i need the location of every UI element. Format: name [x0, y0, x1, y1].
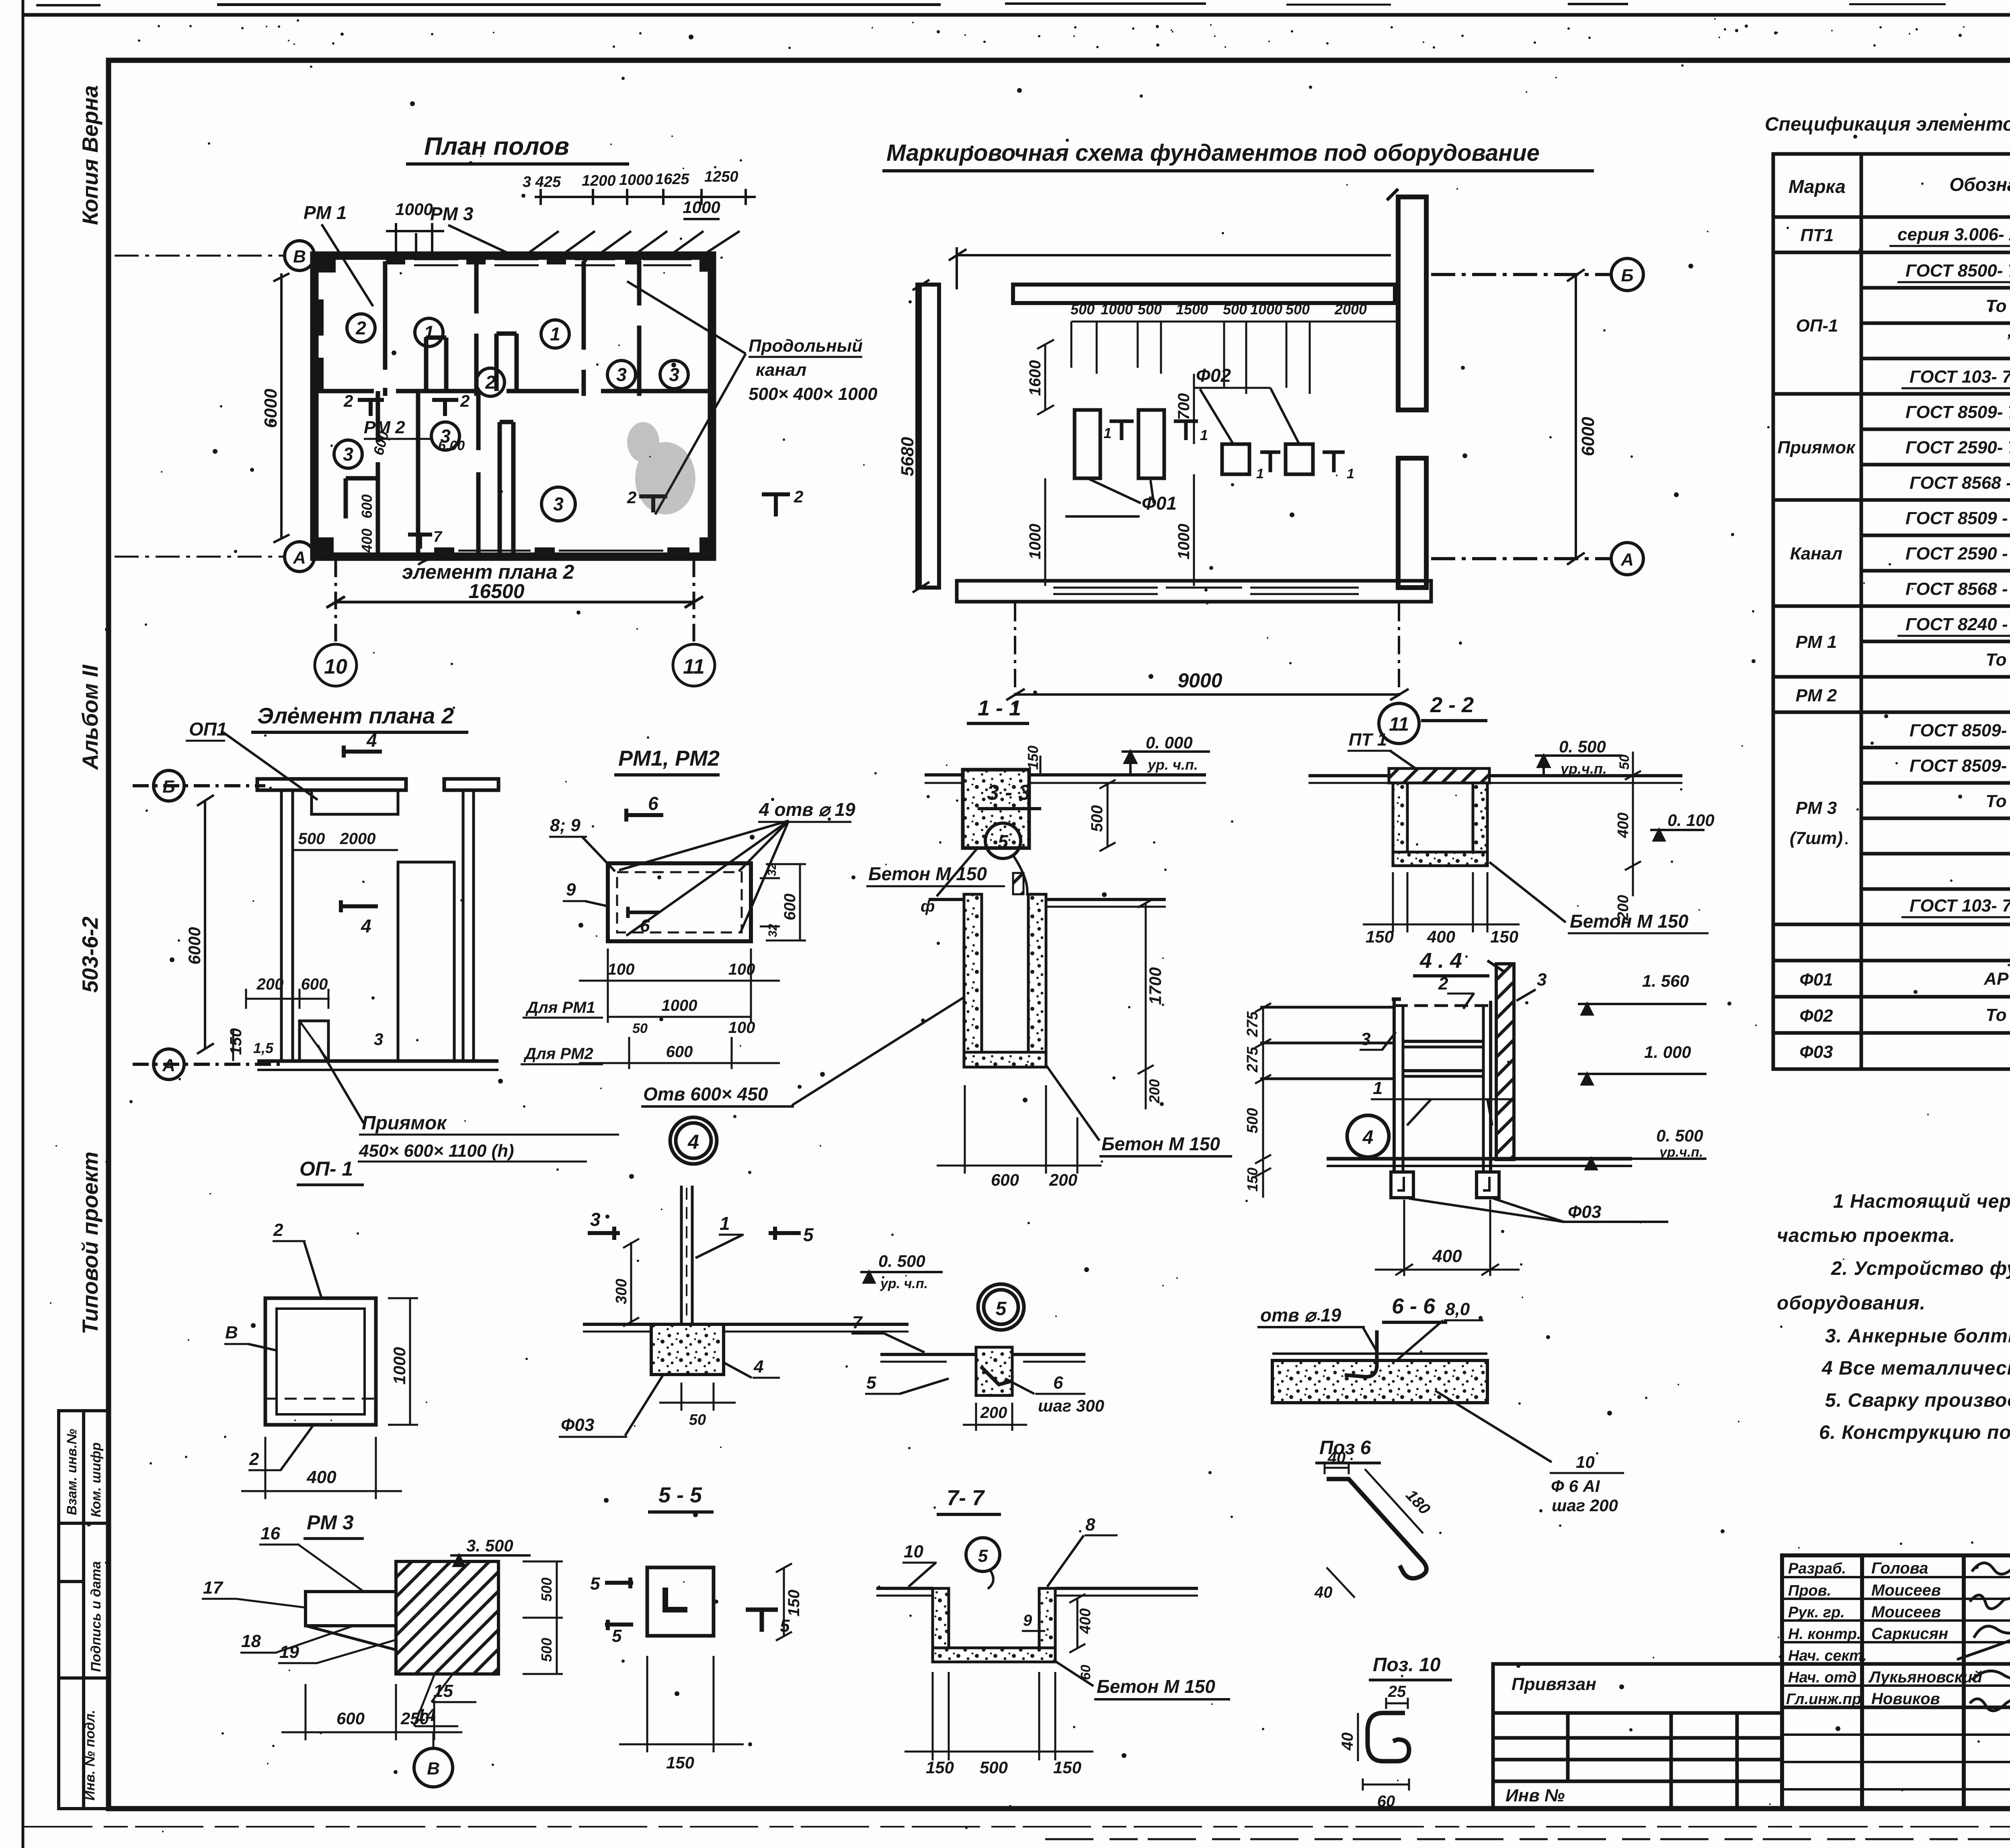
- svg-text:4: 4: [366, 730, 377, 751]
- svg-text:Бетон М 150: Бетон М 150: [1097, 1676, 1215, 1697]
- svg-text:6: 6: [640, 916, 650, 936]
- svg-text:Ф01: Ф01: [1799, 970, 1833, 990]
- dims of 3-3: [937, 899, 1154, 1174]
- svg-text:отв ⌀ 19: отв ⌀ 19: [1260, 1305, 1341, 1326]
- svg-text:1200: 1200: [582, 172, 616, 189]
- outer walls of floor plan: [314, 256, 712, 557]
- dims RM3: [281, 1561, 563, 1740]
- pit (priyamok): [299, 1021, 328, 1061]
- svg-text:60: 60: [1377, 1793, 1395, 1810]
- svg-text:4: 4: [687, 1131, 699, 1153]
- svg-text:500: 500: [1286, 301, 1310, 318]
- svg-text:Ф01: Ф01: [1142, 493, 1177, 514]
- label: longitudinal channel: [749, 336, 878, 404]
- foundation F01 rectangles: [1075, 410, 1313, 478]
- left dim chain of 4-4: [1255, 1003, 1271, 1198]
- svg-text:Бетон М 150: Бетон М 150: [868, 863, 987, 884]
- svg-text:1000: 1000: [1175, 524, 1193, 559]
- svg-text:9: 9: [566, 880, 576, 899]
- signature squiggles: [1957, 1560, 2010, 1716]
- left wall block: [917, 285, 939, 588]
- interior vertical dims: [1037, 340, 1194, 586]
- svg-text:600: 600: [666, 1043, 693, 1061]
- svg-text:150: 150: [1244, 1168, 1261, 1192]
- svg-text:500× 400× 1000: 500× 400× 1000: [749, 384, 878, 404]
- vertical pit walls: [964, 894, 982, 1067]
- svg-text:ОП1: ОП1: [189, 719, 227, 740]
- svg-text:2: 2: [485, 372, 496, 393]
- svg-text:4: 4: [361, 916, 371, 936]
- axis circle B below RM3: [414, 1748, 453, 1787]
- svg-text:1625: 1625: [655, 171, 689, 188]
- svg-text:шаг 300: шаг 300: [1038, 1396, 1104, 1415]
- svg-text:10: 10: [904, 1542, 923, 1561]
- svg-text:Б: Б: [1621, 266, 1633, 285]
- bottom-left margin mini table: [59, 1411, 109, 1809]
- svg-text:2: 2: [343, 391, 353, 410]
- svg-text:оборудования.: оборудования.: [1777, 1293, 1926, 1314]
- svg-text:ур. ч.п.: ур. ч.п.: [880, 1276, 928, 1291]
- svg-text:Бетон М 150: Бетон М 150: [1101, 1133, 1220, 1154]
- svg-text:2: 2: [355, 318, 366, 338]
- bottom dim 400 of 4-4: [1375, 1200, 1520, 1276]
- section mark 6 top: [626, 809, 663, 822]
- vertical dim 6000 left of plan: [273, 273, 289, 543]
- svg-text:6.00: 6.00: [438, 438, 465, 453]
- svg-text:1600: 1600: [1026, 360, 1044, 396]
- svg-text:Приямок: Приямок: [1777, 438, 1856, 457]
- svg-text:РМ 1: РМ 1: [1796, 632, 1837, 652]
- left column labels: [1786, 1560, 1867, 1708]
- svg-text:ГОСТ 103- 76: ГОСТ 103- 76: [1910, 896, 2010, 916]
- svg-text:1. 000: 1. 000: [1644, 1043, 1691, 1061]
- names: [1868, 1559, 2010, 1708]
- svg-text:1700: 1700: [1146, 967, 1165, 1005]
- svg-text:50: 50: [632, 1021, 648, 1036]
- level flag 0.000: [1122, 752, 1210, 775]
- svg-text:1: 1: [1200, 427, 1208, 443]
- hatched brick wall: [1487, 961, 1514, 1160]
- svg-text:Лукьяновский: Лукьяновский: [1868, 1668, 1982, 1686]
- table outer box: [1773, 154, 2010, 1069]
- svg-text:275: 275: [1244, 1047, 1261, 1073]
- svg-text:9: 9: [1023, 1612, 1032, 1629]
- svg-text:5680: 5680: [898, 437, 917, 476]
- svg-text:1000: 1000: [1101, 301, 1133, 318]
- svg-text:3: 3: [616, 364, 627, 385]
- leaders to bolt holes label: [619, 821, 789, 936]
- svg-text:3. Анкерные болты устано: 3. Анкерные болты установить согласно СН…: [1825, 1326, 2010, 1347]
- bottom wall with window lines: [957, 581, 1431, 602]
- svg-text:Подпись и дата: Подпись и дата: [88, 1561, 104, 1672]
- foundation F02 rectangles: [1222, 444, 1249, 474]
- left margin rotated annotations: [78, 85, 103, 1334]
- svg-text:(7шт): (7шт): [1790, 828, 1843, 848]
- svg-text:1000: 1000: [619, 172, 653, 188]
- svg-text:Ф 6 АI: Ф 6 АI: [1551, 1477, 1600, 1496]
- svg-text:400: 400: [1077, 1608, 1094, 1634]
- svg-text:ур. ч.п.: ур. ч.п.: [1147, 756, 1198, 773]
- svg-text:3: 3: [1537, 970, 1546, 990]
- svg-text:Моисеев: Моисеев: [1871, 1582, 1941, 1599]
- svg-text:3: 3: [553, 494, 564, 514]
- svg-text:9000: 9000: [1177, 669, 1222, 692]
- svg-text:400: 400: [1427, 927, 1455, 946]
- svg-text:1,5: 1,5: [253, 1040, 274, 1056]
- svg-text:1000: 1000: [662, 997, 697, 1014]
- svg-text:400: 400: [1615, 813, 1632, 838]
- svg-text:5 - 5: 5 - 5: [658, 1483, 702, 1507]
- tee marks near foundations: [1110, 421, 1345, 472]
- svg-text:32: 32: [765, 863, 779, 876]
- body row lines (cols 2-5): [1861, 251, 2010, 254]
- svg-text:2 - 2: 2 - 2: [1430, 693, 1474, 717]
- leader labels RM3: [203, 1524, 453, 1725]
- svg-text:То же: То же: [1985, 791, 2010, 811]
- svg-text:600: 600: [359, 494, 375, 518]
- svg-text:1000: 1000: [683, 198, 720, 217]
- svg-text:150: 150: [1025, 746, 1041, 770]
- svg-text:канал: канал: [756, 360, 806, 380]
- svg-text:Альбом II: Альбом II: [78, 664, 103, 770]
- svg-text:1250: 1250: [704, 168, 738, 185]
- svg-text:200: 200: [1049, 1170, 1077, 1189]
- svg-text:ГОСТ 8568 - 57: ГОСТ 8568 - 57: [1905, 579, 2010, 599]
- svg-text:500: 500: [538, 1578, 555, 1602]
- dim 200 under weld detail: [963, 1403, 1027, 1431]
- svg-text:РМ1, РМ2: РМ1, РМ2: [618, 746, 720, 770]
- svg-text:1: 1: [1256, 466, 1264, 481]
- svg-text:Привязан: Привязан: [1512, 1674, 1596, 1694]
- svg-text:150: 150: [666, 1753, 694, 1772]
- svg-text:3 - 3: 3 - 3: [987, 781, 1030, 805]
- top slab with channel OP1: [257, 779, 406, 790]
- mark column entries: [1777, 225, 1856, 1062]
- svg-text:ГОСТ 8568 - 57: ГОСТ 8568 - 57: [1910, 473, 2010, 493]
- svg-text:6000: 6000: [261, 389, 281, 428]
- svg-text:500: 500: [980, 1758, 1008, 1777]
- left dim 5680: [913, 280, 929, 592]
- svg-text:РМ 3: РМ 3: [307, 1511, 354, 1534]
- svg-text:частью проекта.: частью проекта.: [1777, 1225, 1955, 1246]
- bottom dimension 16500 with grid circles 10 and 11: [315, 559, 715, 686]
- svg-text:5: 5: [998, 831, 1009, 852]
- interior walls lower half: [376, 391, 380, 442]
- svg-text:1: 1: [1373, 1078, 1382, 1098]
- svg-text:18: 18: [241, 1631, 261, 1651]
- svg-text:500: 500: [1071, 301, 1095, 318]
- svg-text:8: 8: [1085, 1515, 1095, 1535]
- svg-text:То же: То же: [1985, 650, 2010, 670]
- svg-text:7: 7: [433, 529, 443, 545]
- svg-text:6. Конструкцию пола смотри: 6. Конструкцию пола смотри на чертеже АР…: [1819, 1422, 2010, 1443]
- level flag 3.500: [450, 1555, 531, 1566]
- svg-text:”: ”: [2006, 331, 2010, 350]
- room number circles: [334, 314, 688, 521]
- svg-text:8,0: 8,0: [1445, 1299, 1470, 1319]
- svg-text:Голова: Голова: [1871, 1559, 1928, 1577]
- svg-text:400: 400: [306, 1467, 336, 1487]
- svg-text:3 425: 3 425: [523, 174, 561, 191]
- svg-text:8; 9: 8; 9: [550, 815, 580, 835]
- svg-text:50: 50: [689, 1412, 706, 1428]
- grid circle 4 in section: [1347, 1115, 1389, 1157]
- svg-text:0. 500: 0. 500: [1656, 1126, 1703, 1145]
- svg-text:ПТ 1: ПТ 1: [1349, 730, 1387, 750]
- svg-text:ГОСТ 8500- 72: ГОСТ 8500- 72: [1905, 261, 2010, 281]
- svg-text:150: 150: [227, 1028, 245, 1055]
- svg-text:100: 100: [728, 961, 755, 978]
- svg-text:Ком. шифр: Ком. шифр: [88, 1442, 104, 1517]
- level flag 0.500 node: [860, 1272, 943, 1283]
- bottom dims of 2-2: [1363, 872, 1520, 932]
- svg-text:4 отв ⌀ 19: 4 отв ⌀ 19: [759, 799, 855, 820]
- wc partitions upper middle: [494, 334, 499, 391]
- svg-text:ГОСТ 2590- 71: ГОСТ 2590- 71: [1905, 438, 2010, 457]
- top long dimension line: [949, 247, 1391, 289]
- svg-text:100: 100: [728, 1019, 755, 1037]
- svg-text:То же: То же: [1985, 296, 2010, 316]
- svg-text:Ф02: Ф02: [1799, 1006, 1833, 1026]
- svg-text:РМ 3: РМ 3: [1796, 798, 1837, 818]
- svg-text:40: 40: [1314, 1584, 1333, 1601]
- post frame of 4-4: [1392, 999, 1491, 1172]
- svg-text:1000: 1000: [1026, 524, 1044, 559]
- svg-text:А: А: [1620, 550, 1634, 570]
- axis circles B/A for element: [133, 770, 281, 1080]
- svg-text:5. Сварку производить эл: 5. Сварку производить электродами типа Э…: [1825, 1390, 2010, 1411]
- small closet lower-left: [346, 476, 378, 481]
- svg-text:Пров.: Пров.: [1788, 1582, 1831, 1599]
- svg-text:450× 600× 1100 (h): 450× 600× 1100 (h): [359, 1141, 514, 1161]
- top dimension chains: [386, 189, 756, 257]
- svg-text:В: В: [225, 1323, 238, 1342]
- svg-text:3. 500: 3. 500: [466, 1536, 513, 1555]
- svg-text:шаг 200: шаг 200: [1552, 1496, 1618, 1515]
- svg-text:2000: 2000: [340, 830, 376, 848]
- svg-text:500: 500: [1244, 1108, 1261, 1133]
- svg-text:Канал: Канал: [1790, 544, 1842, 563]
- svg-text:400: 400: [359, 529, 375, 553]
- section marks 4: [341, 746, 382, 912]
- small interior dims lower-left: [359, 429, 465, 553]
- svg-text:РМ 1: РМ 1: [304, 202, 347, 223]
- svg-text:Маркировочная схема фу: Маркировочная схема фундаментов под обор…: [886, 140, 1540, 166]
- dims 7-7: [904, 1594, 1093, 1760]
- svg-text:ГОСТ 103- 76: ГОСТ 103- 76: [1910, 367, 2010, 387]
- svg-text:400: 400: [1432, 1246, 1462, 1266]
- svg-text:4 . 4: 4 . 4: [1419, 949, 1462, 973]
- svg-text:ГОСТ 8509 - 72: ГОСТ 8509 - 72: [1905, 508, 2010, 528]
- svg-text:Инв №: Инв №: [1505, 1786, 1565, 1805]
- svg-text:1: 1: [550, 324, 560, 344]
- mid horizontal corridor wall: [314, 389, 374, 393]
- svg-text:0. 100: 0. 100: [1667, 811, 1715, 830]
- dims 5-5: [619, 1563, 792, 1752]
- svg-text:3: 3: [343, 444, 353, 465]
- right dims of RM1/RM2: [760, 864, 806, 940]
- svg-text:50: 50: [1617, 754, 1632, 770]
- svg-text:500: 500: [1223, 301, 1247, 318]
- mark column group separators: [1773, 251, 1861, 254]
- svg-text:Б: Б: [162, 777, 175, 797]
- svg-text:ГОСТ 8509- 72: ГОСТ 8509- 72: [1905, 402, 2010, 422]
- footings F03: [1391, 1172, 1499, 1198]
- designation column: [1897, 225, 2010, 1060]
- svg-text:Обозначение: Обозначение: [1949, 174, 2010, 195]
- svg-text:План полов: План полов: [424, 133, 569, 160]
- svg-text:11: 11: [1389, 714, 1409, 735]
- svg-text:32: 32: [766, 924, 779, 937]
- svg-text:200: 200: [1146, 1079, 1163, 1104]
- bottom floor line of 4-4: [1327, 1159, 1632, 1166]
- level flag 0.500: [1535, 756, 1622, 776]
- big double circle node 4: [670, 1117, 717, 1164]
- svg-text:3: 3: [374, 1030, 383, 1049]
- svg-text:5: 5: [612, 1626, 622, 1646]
- svg-text:40: 40: [1327, 1449, 1346, 1467]
- table header text: [1788, 164, 2010, 211]
- svg-text:Для РМ2: Для РМ2: [523, 1045, 593, 1063]
- svg-text:Ф02: Ф02: [1196, 365, 1231, 386]
- svg-text:ГОСТ 2590 - 71: ГОСТ 2590 - 71: [1905, 544, 2010, 563]
- F03 label of 4-4: [1409, 1199, 1668, 1222]
- inner dim chain 500 1000 500 1500 500 1000 500 2000: [1071, 322, 1397, 394]
- svg-text:ГОСТ 8240 - 72: ГОСТ 8240 - 72: [1905, 615, 2010, 634]
- svg-text:Н. контр.: Н. контр.: [1788, 1626, 1861, 1643]
- axis circles V and A: [115, 241, 314, 572]
- svg-text:100: 100: [608, 961, 635, 978]
- svg-text:3: 3: [590, 1209, 601, 1230]
- svg-text:РМ 3: РМ 3: [430, 203, 474, 224]
- svg-text:600: 600: [781, 893, 799, 920]
- svg-text:В: В: [427, 1759, 440, 1778]
- svg-text:Рук. гр.: Рук. гр.: [1788, 1604, 1845, 1621]
- bottom dims of RM1/RM2: [579, 949, 780, 1069]
- materials band: [1773, 923, 2010, 926]
- svg-text:2: 2: [249, 1449, 259, 1469]
- svg-text:Нач. отд: Нач. отд: [1788, 1669, 1856, 1686]
- svg-text:25: 25: [1388, 1683, 1406, 1700]
- svg-text:5: 5: [996, 1298, 1007, 1319]
- hatched block: [396, 1561, 498, 1674]
- svg-text:ОП- 1: ОП- 1: [299, 1158, 353, 1180]
- svg-text:Для РМ1: Для РМ1: [525, 999, 595, 1016]
- right dims of 2-2: [1625, 752, 1641, 896]
- svg-text:500: 500: [298, 830, 325, 848]
- svg-text:150: 150: [1053, 1758, 1081, 1777]
- dims of OP-1: [241, 1298, 418, 1499]
- svg-text:1500: 1500: [1176, 301, 1208, 318]
- svg-text:То же: То же: [1985, 1005, 2010, 1025]
- svg-text:200: 200: [980, 1404, 1007, 1422]
- svg-text:600: 600: [336, 1709, 365, 1728]
- svg-text:ур.ч.п.: ур.ч.п.: [1659, 1145, 1703, 1160]
- svg-text:150: 150: [1366, 927, 1394, 946]
- node dims: [623, 1239, 736, 1411]
- section 1-1 drawing: [925, 770, 1206, 848]
- svg-text:5: 5: [590, 1574, 600, 1594]
- svg-text:Спецификация элементов к ма: Спецификация элементов к маркировочным с…: [1765, 114, 2010, 135]
- svg-text:АР л. 7: АР л. 7: [1983, 969, 2010, 989]
- svg-text:РМ 2: РМ 2: [1796, 686, 1837, 705]
- svg-text:6: 6: [1053, 1373, 1063, 1393]
- svg-text:40: 40: [1339, 1733, 1356, 1751]
- svg-text:4: 4: [753, 1357, 763, 1377]
- Privyazan table left of title block: [1493, 1664, 1782, 1809]
- svg-text:500: 500: [538, 1638, 555, 1662]
- svg-text:серия 3.006- 2 вып 1: серия 3.006- 2 вып 1: [1897, 225, 2010, 244]
- U channel: [1393, 783, 1407, 866]
- header bottom: [1773, 215, 2010, 219]
- svg-text:Саркисян: Саркисян: [1871, 1625, 1948, 1643]
- bottom dim 9000 with circle 11: [1006, 603, 1419, 744]
- svg-text:Марка: Марка: [1788, 176, 1846, 197]
- svg-text:Копия Верна: Копия Верна: [78, 85, 103, 225]
- svg-text:6000: 6000: [185, 927, 204, 965]
- svg-text:503-6-2: 503-6-2: [78, 916, 103, 993]
- right pylon upper (extends above building): [1398, 197, 1426, 410]
- svg-text:Поз. 10: Поз. 10: [1373, 1654, 1441, 1676]
- svg-text:10: 10: [1576, 1453, 1595, 1471]
- svg-text:ГОСТ 8509- 72: ГОСТ 8509- 72: [1910, 756, 2010, 776]
- svg-text:16500: 16500: [468, 580, 524, 602]
- svg-text:11: 11: [683, 655, 705, 678]
- svg-text:500: 500: [1088, 805, 1106, 832]
- svg-text:1: 1: [424, 322, 434, 343]
- floor line: [257, 1059, 498, 1063]
- svg-text:Моисеев: Моисеев: [1871, 1603, 1941, 1621]
- svg-text:Ф03: Ф03: [1799, 1042, 1833, 1062]
- svg-text:150: 150: [926, 1758, 954, 1777]
- svg-text:1: 1: [1103, 425, 1112, 441]
- svg-text:1000: 1000: [390, 1347, 409, 1385]
- svg-text:4: 4: [1362, 1127, 1374, 1148]
- svg-text:150: 150: [1490, 927, 1518, 946]
- svg-text:Бетон М 150: Бетон М 150: [1570, 911, 1688, 932]
- window openings on top wall: [414, 259, 691, 556]
- svg-text:200: 200: [256, 975, 284, 993]
- svg-text:6000: 6000: [1578, 417, 1598, 456]
- ground lines left of 4-4: [1260, 1007, 1393, 1079]
- svg-text:300: 300: [613, 1279, 630, 1304]
- right wall lower L-piece: [1398, 458, 1426, 588]
- svg-text:Отв 600× 450: Отв 600× 450: [643, 1084, 768, 1104]
- walls of element: [280, 790, 283, 1061]
- svg-text:10: 10: [324, 655, 347, 678]
- svg-text:Приямок: Приямок: [362, 1112, 447, 1134]
- svg-text:500: 500: [1138, 301, 1162, 318]
- underline marks in designation column: [1889, 246, 2010, 917]
- svg-text:ур.ч.п.: ур.ч.п.: [1560, 760, 1607, 777]
- left rows: [1782, 1576, 2010, 1578]
- top wall double line: [1013, 285, 1395, 303]
- element dims: [233, 850, 398, 1061]
- axis circles B and A right: [1431, 258, 1643, 575]
- dims of 1-1: [1040, 756, 1116, 851]
- svg-text:5: 5: [866, 1373, 876, 1393]
- svg-text:6 - 6: 6 - 6: [1392, 1294, 1436, 1318]
- svg-text:150: 150: [785, 1590, 803, 1616]
- svg-text:2: 2: [460, 391, 470, 410]
- svg-text:5: 5: [803, 1224, 814, 1245]
- T5 symbol: [746, 1610, 778, 1632]
- svg-text:2: 2: [273, 1220, 283, 1240]
- svg-text:ГОСТ 8509- 72: ГОСТ 8509- 72: [1910, 721, 2010, 740]
- svg-text:Нач. сект.: Нач. сект.: [1788, 1647, 1867, 1664]
- svg-text:2: 2: [794, 487, 803, 506]
- svg-text:17: 17: [203, 1578, 224, 1598]
